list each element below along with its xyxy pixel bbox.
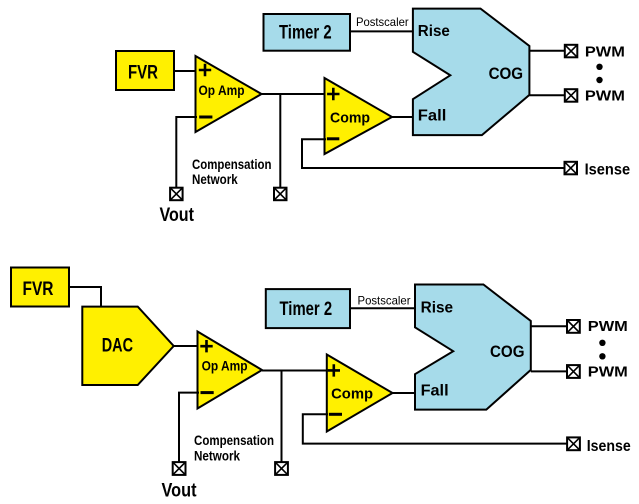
svg-text:Vout: Vout [159, 205, 194, 226]
block FVR (top) [116, 51, 174, 90]
svg-text:Rise: Rise [418, 23, 450, 40]
block Timer 2 (bottom) [266, 289, 350, 328]
wire comparator - input to Isense (top) [302, 139, 565, 168]
svg-text:COG: COG [490, 342, 525, 361]
wire Timer 2 Postscaler to COG Rise (bottom) [350, 307, 416, 309]
wire COG to PWM pin 2 (bottom) [531, 370, 567, 372]
svg-text:Comp: Comp [331, 386, 373, 403]
svg-text:Timer 2: Timer 2 [279, 22, 332, 43]
ellipsis dots (top) [596, 64, 602, 84]
svg-text:Op Amp: Op Amp [199, 82, 245, 98]
pin feedback (top) [274, 188, 287, 201]
pin PWM 2 (bottom) [567, 365, 580, 378]
svg-text:FVR: FVR [23, 279, 54, 300]
svg-text:FVR: FVR [128, 62, 158, 83]
wire op-amp U2 - input to Vout pin (bottom) [179, 393, 199, 462]
op-amp U1 "Op Amp" (top) [196, 56, 262, 132]
svg-text:PWM: PWM [585, 88, 625, 105]
svg-text:PWM: PWM [588, 318, 628, 335]
svg-text:Fall: Fall [418, 108, 447, 125]
svg-text:Isense: Isense [587, 438, 631, 455]
label Compensation Network (bottom) [194, 432, 274, 464]
wire DAC to op-amp U2 + input [174, 345, 199, 347]
wire junction drop to feedback pin (top) [279, 94, 281, 188]
svg-text:Isense: Isense [585, 162, 631, 179]
comparator "Comp" (bottom) [327, 355, 393, 432]
op-amp U2 "Op Amp" (bottom) [198, 332, 263, 409]
svg-text:Network: Network [194, 448, 240, 464]
svg-text:Compensation: Compensation [192, 156, 272, 172]
svg-text:Comp: Comp [330, 109, 370, 126]
svg-text:Vout: Vout [162, 481, 198, 502]
svg-text:Rise: Rise [421, 299, 454, 316]
pin Vout (bottom) [173, 462, 186, 475]
block COG (top) [413, 9, 530, 136]
svg-text:Network: Network [192, 171, 238, 187]
comparator "Comp" (top) [325, 78, 393, 154]
pin PWM 1 (top) [565, 45, 578, 58]
ellipsis dots (bottom) [599, 340, 605, 360]
wire FVR to DAC (bottom) [69, 287, 101, 307]
svg-text:PWM: PWM [585, 43, 625, 60]
pin Vout (top) [170, 188, 183, 201]
pin Isense (bottom) [567, 437, 580, 450]
block DAC (bottom) [82, 307, 173, 385]
svg-text:PWM: PWM [588, 363, 628, 380]
wire op-amp U2 output to comparator + input (bottom) [262, 370, 327, 372]
wire comparator output to COG Fall (top) [392, 116, 414, 118]
wire Timer 2 Postscaler to COG Rise (top) [350, 30, 414, 32]
wire COG to PWM pin 2 (top) [529, 94, 565, 96]
svg-text:Op Amp: Op Amp [202, 358, 248, 374]
svg-text:COG: COG [489, 64, 523, 83]
pin PWM 2 (top) [565, 89, 578, 102]
wire junction drop to feedback pin (bottom) [281, 371, 283, 463]
wire op-amp U1 output to comparator + input [262, 93, 326, 95]
block FVR (bottom) [11, 268, 69, 307]
pin PWM 1 (bottom) [567, 320, 580, 333]
svg-text:Fall: Fall [421, 383, 449, 400]
label Compensation Network (top) [192, 156, 272, 187]
wire op-amp U1 - input to Vout pin [176, 117, 197, 188]
wire comparator - input to Isense (bottom) [303, 414, 567, 443]
svg-text:Compensation: Compensation [194, 432, 274, 448]
block Timer 2 (top) [264, 14, 351, 51]
pin Isense (top) [565, 162, 578, 175]
wire comparator output to COG Fall (bottom) [393, 392, 417, 394]
svg-text:Postscaler: Postscaler [356, 15, 409, 29]
block COG (bottom) [415, 285, 531, 410]
svg-text:Postscaler: Postscaler [358, 293, 411, 307]
pin feedback (bottom) [275, 462, 288, 475]
svg-text:Timer 2: Timer 2 [280, 299, 333, 320]
wire COG to PWM pin 1 (bottom) [531, 325, 567, 327]
wire FVR to op-amp U1 + input [174, 70, 197, 72]
wire COG to PWM pin 1 (top) [529, 50, 565, 52]
svg-text:DAC: DAC [102, 336, 134, 357]
